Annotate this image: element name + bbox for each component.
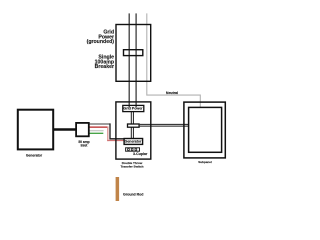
cord: generator to inlet [54,128,76,131]
wire: inlet neutral white stub [90,130,104,132]
label: Double Throw Transfer Switch [117,162,147,169]
main breaker panel box [116,25,151,82]
wire: transfer switch internal pair upper (grid side) [130,112,132,124]
wire: red vertical drop (light red) [107,127,109,142]
wire: inlet red hot horizontal [90,126,109,128]
wire: switch-to-subpanel feeder pair [140,123,189,125]
grid power terminal box [123,105,144,111]
generator terminal box [124,139,143,145]
3-coupler connector box [126,148,140,151]
wire: inlet ground green stub [90,132,104,134]
wire: service neutral down, over and into subpanel [147,13,201,107]
coupler pin 2 [131,149,133,151]
subpanel inner box [189,107,222,152]
label: Single 100amp Breaker [84,55,114,69]
coupler pin 3 [135,149,137,151]
wire: inlet hot grey horizontal [90,123,110,125]
transfer switch enclosure [116,102,151,159]
label: Subpanel [190,161,220,164]
wire: service hot L1 from top [128,13,130,107]
subpanel outer box [184,102,225,158]
label: Ground Rod [123,193,143,197]
ground rod [116,177,120,201]
label: Generator (left box) [19,154,49,158]
label: Generator (terminal) [123,140,143,144]
breaker (100amp) rectangle [124,50,143,56]
coupler pin 1 [128,149,130,151]
label: Grid Power (terminal) [123,106,143,111]
wire: service hot L2 from top [135,13,137,107]
label: 50 amp Inlet [69,141,99,148]
double-throw switch contact box [128,124,140,127]
label: Grid Power (grounded) [84,30,114,44]
generator box [18,110,53,150]
50 amp inlet box [76,123,89,136]
wire: red horizontal into generator terminal [107,140,125,142]
label: 3-Cuplar [133,152,147,156]
wire: transfer switch internal pair lower (generator side) [130,127,132,138]
label: Neutral [162,91,182,95]
wire: inlet hot black drop into generator terminal [110,123,125,138]
